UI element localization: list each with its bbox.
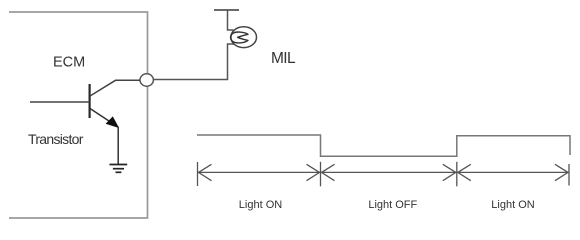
svg-text:Transistor: Transistor — [28, 131, 84, 147]
svg-text:Light OFF: Light OFF — [368, 199, 417, 211]
svg-text:MIL: MIL — [271, 50, 296, 67]
svg-text:Light ON: Light ON — [491, 199, 534, 211]
svg-text:Light ON: Light ON — [239, 199, 282, 211]
svg-text:ECM: ECM — [53, 55, 85, 71]
